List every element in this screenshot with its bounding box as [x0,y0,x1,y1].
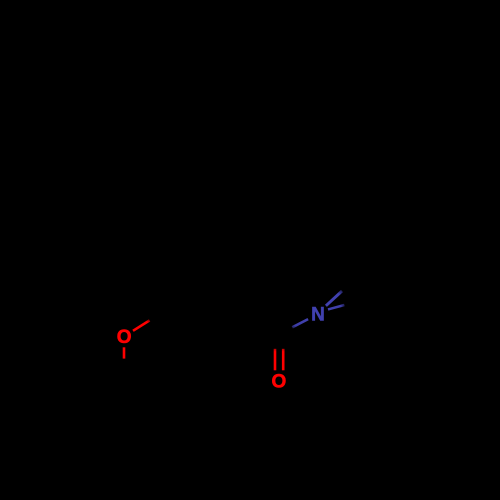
carbonyl C=O double bond, left line [274,349,277,371]
bond O1-CH2 (down, red half) [123,347,126,358]
svg-text:N: N [311,305,325,326]
bond N1=CH2 inner line (right, blue half) [328,305,344,309]
bond N1-C(=O) (down-left, blue half) [292,319,308,327]
bond N1=CH2 outer line (up-right, blue half) [326,291,342,306]
bond O1-CH2 (up-right, red half) [133,320,150,330]
carbonyl C=O double bond, right line [282,349,285,371]
svg-text:O: O [272,372,287,393]
svg-text:O: O [117,327,132,348]
